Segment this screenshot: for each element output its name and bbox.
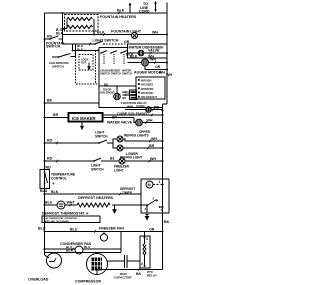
label 2 3 4: [145, 197, 163, 213]
svg-text:3: 3: [146, 237, 148, 241]
svg-text:BLK: BLK: [117, 9, 125, 13]
label WATER DISPENSER VALVE: [129, 46, 164, 53]
node freezer fan left: [44, 231, 46, 233]
svg-text:W/PUSH: W/PUSH: [141, 78, 152, 82]
label RUN CAPACITOR: [114, 272, 132, 280]
node dispenser bus: [166, 52, 168, 54]
svg-text:WATER VALVE: WATER VALVE: [107, 121, 133, 125]
svg-text:SOLENOID: SOLENOID: [100, 91, 115, 95]
wire auger return: [145, 66, 167, 70]
label BLK childproof: [77, 44, 84, 52]
ground heater tap: [113, 205, 116, 213]
wire fan feed drop: [120, 232, 122, 253]
run capacitor: [108, 255, 141, 268]
svg-text:SWITCH: SWITCH: [95, 134, 108, 138]
node upper1 bus: [162, 140, 164, 142]
svg-text:RD: RD: [47, 157, 53, 161]
svg-text:OR: OR: [149, 228, 155, 232]
svg-text:BR: BR: [149, 144, 155, 148]
svg-text:WH: WH: [127, 105, 133, 109]
connector block fountain: [130, 90, 137, 100]
svg-text:WH: WH: [151, 137, 157, 141]
label FOUNTAIN DELAY CARD: [121, 101, 147, 108]
heater defrost resistor: [68, 203, 147, 207]
label TO LINE CORD: [139, 2, 150, 14]
node auger bus: [166, 62, 168, 64]
node defrost branch: [44, 193, 46, 195]
lamp fountain light: [132, 33, 138, 39]
svg-text:OR: OR: [124, 40, 130, 44]
label FREEZER LIGHT: [114, 165, 130, 173]
svg-text:WH: WH: [150, 58, 156, 62]
node lower bus: [162, 147, 164, 149]
overload protector: [47, 253, 62, 268]
svg-text:1: 1: [159, 180, 161, 184]
box temperature control: [40, 170, 50, 189]
label DEFROST TIMER: [120, 187, 135, 195]
note box thermostat: [42, 216, 100, 223]
motor freezer fan: [100, 232, 107, 242]
heater resistor upper: [67, 17, 92, 20]
line cord double arrow: [154, 1, 157, 12]
svg-text:CAPACITOR: CAPACITOR: [114, 276, 132, 280]
solenoid door: [114, 86, 121, 100]
svg-text:RD: RD: [47, 139, 53, 143]
node fountain light bus: [166, 34, 168, 36]
motor condenser fan: [75, 246, 83, 254]
svg-text:BR: BR: [112, 116, 118, 120]
label LOWER REFRIG LIGHT: [120, 152, 143, 160]
svg-text:BK: BK: [164, 220, 170, 224]
node timer 1: [162, 184, 164, 186]
wire ice maker feed: [45, 117, 69, 119]
svg-text:SWITCH: SWITCH: [100, 72, 110, 76]
wire fountain light drop: [62, 35, 64, 45]
wire compressor feed: [45, 252, 122, 254]
wire top main L1: [45, 12, 168, 14]
svg-text:BN: BN: [123, 96, 127, 100]
svg-text:BLK: BLK: [51, 190, 59, 194]
node freezer bus: [162, 160, 164, 162]
switch fountain light switch: [44, 36, 63, 40]
svg-text:CARD: CARD: [136, 104, 145, 108]
node bus card: [44, 102, 46, 104]
svg-text:WH: WH: [159, 71, 165, 75]
svg-text:W/LOCKOUT: W/LOCKOUT: [141, 95, 157, 99]
wire right bus top: [166, 3, 168, 105]
svg-text:RELAY: RELAY: [147, 274, 157, 278]
svg-text:FOR THERMOSTAT OPERATING: FOR THERMOSTAT OPERATING: [44, 217, 78, 220]
box water dispenser valve: [128, 44, 168, 58]
solenoid water valve: [134, 118, 163, 126]
svg-text:BLU: BLU: [38, 227, 46, 231]
node heater return: [93, 34, 95, 36]
wire bus to card: [45, 102, 100, 104]
lamp upper refrig 1: [117, 136, 163, 142]
svg-text:W/WATER: W/WATER: [141, 87, 153, 91]
fountain heaters dashed box: [65, 15, 99, 32]
svg-text:FREEZER FAN: FREEZER FAN: [99, 227, 124, 231]
node wv bus: [162, 114, 164, 116]
node upper lights: [44, 142, 46, 144]
svg-text:AUGER MOTOR: AUGER MOTOR: [134, 71, 162, 75]
wire bus to overload: [45, 255, 49, 258]
svg-text:WH: WH: [152, 31, 158, 35]
svg-text:SWITCH: SWITCH: [111, 72, 121, 76]
label FOUNTAIN SWITCH: [46, 42, 65, 49]
svg-text:DEFROST THERMOSTAT ✛: DEFROST THERMOSTAT ✛: [42, 212, 90, 216]
wire ptc top: [144, 232, 146, 241]
label BLK WH auger: [126, 53, 156, 62]
switch light switch: [94, 41, 105, 45]
wire dashed linkage: [76, 51, 100, 85]
svg-text:WH: WH: [147, 119, 153, 123]
svg-text:BLK: BLK: [77, 48, 84, 52]
svg-text:SWITCH: SWITCH: [46, 45, 61, 49]
svg-text:W/CUBES: W/CUBES: [141, 83, 154, 87]
node ptc bottom: [144, 265, 146, 267]
lamp freezer light: [119, 158, 125, 164]
box defrost timer: [141, 179, 169, 213]
wire freezer fan line: [45, 231, 163, 233]
node ice maker feed: [44, 117, 46, 119]
node freezer line: [44, 160, 46, 162]
node freezer fan bus: [162, 231, 164, 233]
svg-text:FOUNTAIN HEATERS: FOUNTAIN HEATERS: [100, 15, 137, 19]
wire heater left drop: [63, 13, 68, 35]
wire left bus: [44, 13, 46, 255]
svg-text:SWITCH: SWITCH: [122, 72, 132, 76]
wire crusher solenoid line: [128, 62, 168, 64]
svg-text:OVERLOAD: OVERLOAD: [28, 278, 49, 282]
svg-text:RD: RD: [47, 35, 53, 39]
svg-text:BLU: BLU: [84, 245, 90, 249]
svg-text:COMPRESSOR: COMPRESSOR: [75, 280, 101, 284]
node ptc top: [144, 237, 146, 239]
label CHILDPROOF SWITCH: [49, 61, 69, 69]
svg-text:TEMP. SEE TECH SHEET: TEMP. SEE TECH SHEET: [44, 221, 71, 223]
svg-text:BLU: BLU: [45, 201, 53, 205]
svg-text:BLU: BLU: [70, 228, 78, 232]
svg-text:VALVE: VALVE: [148, 49, 160, 53]
svg-text:REFRIG LIGHTS: REFRIG LIGHTS: [124, 134, 149, 138]
svg-text:LIGHT: LIGHT: [114, 168, 124, 172]
svg-text:RD: RD: [154, 106, 160, 110]
label BLK WH dispenser: [130, 55, 154, 59]
node cube bus: [162, 110, 164, 112]
ground below timer: [145, 206, 148, 220]
label B OR BLK: [56, 28, 65, 35]
solenoid auger motor: [142, 59, 149, 66]
node defrost heater: [44, 204, 46, 206]
label TEMPERATURE CONTROL: [51, 173, 75, 186]
svg-text:WH: WH: [166, 73, 172, 77]
switch temp control: [45, 172, 48, 186]
solenoid water dispenser valve: [128, 50, 168, 56]
lamp lower refrig: [113, 143, 163, 151]
wire upper lights switch line: [45, 139, 118, 143]
label LIGHT SWITCH refrig: [95, 131, 108, 139]
box momentary switch dashed: [79, 55, 93, 71]
compressor: [87, 254, 108, 275]
svg-text:CORD: CORD: [139, 10, 150, 14]
arrow momentary: [88, 63, 90, 70]
box relay legend: [136, 77, 165, 99]
wire ice maker to water valve: [103, 115, 163, 118]
svg-text:BK: BK: [47, 99, 53, 103]
svg-text:CONTROL: CONTROL: [51, 176, 67, 180]
svg-text:BLK: BLK: [97, 31, 105, 35]
thermostat defrost: [57, 201, 68, 209]
node auger return bus: [166, 69, 168, 71]
svg-text:WH: WH: [150, 157, 156, 161]
svg-text:B1: B1: [110, 157, 115, 161]
svg-text:SWITCH: SWITCH: [52, 65, 64, 69]
label UPPER REFRIG LIGHTS: [124, 130, 151, 138]
wire legend left links: [99, 86, 136, 95]
node heater top: [62, 12, 64, 14]
switch dispenser cradle switches: [100, 51, 127, 64]
label BLU BLU condenser: [66, 245, 90, 249]
label BK RD BN door: [123, 90, 127, 100]
svg-text:DEFROST HEATERS: DEFROST HEATERS: [78, 196, 114, 200]
contact timer 2-3-4: [146, 200, 163, 208]
motor defrost timer: [146, 181, 163, 188]
line cord up arrow: [129, 2, 132, 13]
label PTC RELAY: [147, 270, 157, 278]
svg-text:FOUNTAIN LIGHT: FOUNTAIN LIGHT: [111, 30, 142, 34]
svg-text:BLK: BLK: [126, 53, 134, 57]
svg-text:BK: BK: [136, 272, 142, 276]
svg-text:2: 2: [141, 262, 143, 266]
wire defrost branch: [45, 193, 142, 195]
wire fountain light line: [63, 34, 168, 36]
node heater mid: [62, 28, 64, 30]
box ICE MAKER: [68, 113, 103, 123]
wire bottom return: [97, 270, 163, 275]
svg-text:TIMER: TIMER: [122, 191, 133, 195]
switch childproof: [52, 54, 76, 58]
wire childproof riser: [75, 44, 77, 57]
node water valve bus: [162, 122, 164, 124]
wire heater right return: [93, 19, 95, 35]
label cradle switch names: [100, 69, 132, 76]
arrow ice maker down: [81, 122, 83, 130]
wire light switch line: [63, 43, 96, 45]
svg-text:SWITCH: SWITCH: [91, 167, 104, 171]
solenoid cube: [125, 107, 163, 113]
box fountain assembly: [99, 44, 163, 108]
svg-text:OR: OR: [155, 65, 161, 69]
wire defrost heater line: [45, 204, 58, 206]
svg-text:RD: RD: [46, 166, 52, 170]
label DOOR SOLENOID: [100, 88, 115, 95]
heater resistor lower: [67, 25, 92, 28]
svg-text:ICE MAKER: ICE MAKER: [72, 116, 96, 121]
label LIGHT SWITCH freezer: [91, 164, 104, 172]
svg-text:M: M: [148, 183, 151, 187]
wire right bus lower: [163, 104, 168, 270]
node timer 4 bus: [162, 206, 164, 208]
wire color change ticks: [56, 12, 156, 271]
wire condenser fan line: [45, 248, 122, 250]
box PTC relay: [140, 236, 150, 268]
svg-text:✛: ✛: [52, 182, 55, 186]
svg-text:W/CRUSH: W/CRUSH: [141, 91, 154, 95]
svg-text:OUT: OUT: [81, 61, 87, 65]
svg-text:BLU: BLU: [40, 189, 48, 193]
label BK RD links: [104, 83, 130, 95]
resistor ptc: [143, 240, 145, 265]
svg-text:LIGHT SWITCH: LIGHT SWITCH: [93, 39, 119, 43]
wire childproof link: [73, 44, 100, 51]
node condenser fan: [44, 248, 46, 250]
svg-text:BR: BR: [53, 113, 59, 117]
wire freezer light line: [45, 158, 163, 161]
